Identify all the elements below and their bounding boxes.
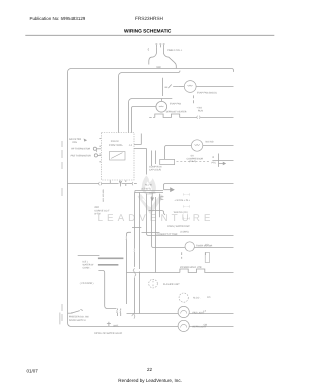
dispenser line 1 xyxy=(78,255,100,257)
connector mark left of plug xyxy=(147,48,150,50)
svg-text:(~~~~): (~~~~) xyxy=(183,193,190,196)
wire evap fan to right stub xyxy=(196,86,233,88)
flasher unit dashed circle xyxy=(149,279,158,288)
air filter arrow xyxy=(84,139,86,141)
dispenser wire corner down xyxy=(98,271,116,309)
svg-text:22: 22 xyxy=(147,367,153,372)
svg-text:CM: CM xyxy=(204,324,208,327)
svg-text:FRZ THERMISTOR: FRZ THERMISTOR xyxy=(71,154,92,157)
svg-text:(~~~~): (~~~~) xyxy=(183,217,190,220)
jog wire y=227.2 xyxy=(132,227,141,229)
wire thermistor FRZ stub xyxy=(98,154,101,156)
svg-text:DOOR SWITCH: DOOR SWITCH xyxy=(69,319,86,322)
timer below dashes xyxy=(182,252,206,258)
vertical wire x=140 xyxy=(139,192,141,313)
svg-text:EVAP FAN: EVAP FAN xyxy=(170,102,181,105)
wire y=183.6 segment a xyxy=(68,183,99,185)
wire bundle vertical x=155.4 xyxy=(155,151,157,273)
defrost timer cam bar xyxy=(135,191,163,193)
svg-text:COMP RUN: COMP RUN xyxy=(149,165,162,168)
control board box RH23 xyxy=(102,133,135,181)
dispenser bar 2 xyxy=(98,257,124,259)
svg-text:CONTROL: CONTROL xyxy=(109,144,123,147)
relay PTC assembly xyxy=(212,154,233,167)
svg-text:WAT..: WAT.. xyxy=(113,325,119,328)
watermark flame logo xyxy=(139,176,162,211)
freezer light line left xyxy=(127,313,179,315)
wire vertical x=162.7 xyxy=(162,78,164,96)
wire defrost lamp drop from y=98.6 xyxy=(161,99,163,102)
svg-text:RUN: RUN xyxy=(198,110,203,113)
wire y=183.6 segment d xyxy=(134,183,137,185)
wire line feed to control top pin 1 xyxy=(119,71,181,133)
svg-text:SH: SH xyxy=(191,155,195,158)
overload protector box xyxy=(160,159,175,164)
svg-text:S DRIVE CO.T: S DRIVE CO.T xyxy=(94,209,110,212)
motor compressor xyxy=(191,140,202,151)
lamp refr light on bottom line xyxy=(178,320,189,331)
svg-text:+ W DIS + DI +: + W DIS + DI + xyxy=(175,199,191,202)
connector at x=133 xyxy=(131,182,134,185)
alco valve dashed circle xyxy=(179,293,188,302)
relay box inside control xyxy=(110,152,126,161)
wire heater to right stub xyxy=(180,117,234,119)
svg-text:(~~~~): (~~~~) xyxy=(183,205,190,208)
wire control to bundle x=146.9 xyxy=(134,148,147,150)
svg-text:FAN: FAN xyxy=(73,141,78,144)
svg-text:DETAIL OF WATER VALVE: DETAIL OF WATER VALVE xyxy=(94,332,122,335)
tiny schematic labels xyxy=(69,49,217,335)
junction tick below freezer light line xyxy=(132,314,135,319)
wire bundle vertical x=146.9 to timer line xyxy=(147,149,234,236)
svg-text:ICEMKR MOLD HTR: ICEMKR MOLD HTR xyxy=(180,266,202,269)
svg-text:PTC: PTC xyxy=(212,161,217,164)
wire evap fan lower dashes xyxy=(193,95,195,103)
svg-text:CAP (15uF): CAP (15uF) xyxy=(149,169,161,172)
vertical wire x=134.5 with connector break xyxy=(134,192,136,313)
svg-text:FLASHER UNIT: FLASHER UNIT xyxy=(163,283,180,286)
wire thermistor RF stub xyxy=(97,148,101,150)
compressor feed wire with corner xyxy=(165,146,192,160)
wire y=183.6 segment c xyxy=(122,183,133,185)
motor M1 evap fan xyxy=(184,81,196,93)
svg-text:W.B DIS | DI |: W.B DIS | DI | xyxy=(174,211,188,214)
svg-text:Rendered by LeadVenture, Inc.: Rendered by LeadVenture, Inc. xyxy=(118,378,182,383)
svg-text:WATER W: WATER W xyxy=(83,263,95,266)
svg-text:ALL W: ALL W xyxy=(145,183,153,186)
svg-text:EVAP FAN (MOLD): EVAP FAN (MOLD) xyxy=(197,92,217,95)
freezer light line right xyxy=(189,313,233,315)
svg-text:Publication No: 5995483129: Publication No: 5995483129 xyxy=(30,16,86,21)
lamp freezer light xyxy=(178,306,189,317)
svg-text:+ NO: + NO xyxy=(197,107,203,110)
header rule xyxy=(25,34,274,36)
connector below RF thermistor xyxy=(95,150,98,152)
wire compressor to right stub xyxy=(203,145,234,147)
timer motor line right xyxy=(195,247,234,249)
svg-text:RH23: RH23 xyxy=(111,140,119,143)
vertical wire x=127 xyxy=(127,232,132,304)
svg-text:CONNECT CT TIME: CONNECT CT TIME xyxy=(157,233,179,236)
bracket below cam xyxy=(161,196,164,199)
svg-text:ICE |: ICE | xyxy=(83,260,88,263)
jog wire y=210.6 with hook xyxy=(149,211,165,215)
svg-text:P08B-2 COL.L: P08B-2 COL.L xyxy=(167,49,183,52)
jog wire y=232.4 xyxy=(142,232,160,234)
svg-text:(1.8 A): (1.8 A) xyxy=(189,160,196,163)
svg-text:NW: NW xyxy=(157,66,162,69)
wire bottom right segment xyxy=(189,326,233,328)
defrost heater element xyxy=(149,117,155,119)
svg-text:COMPRESSOR: COMPRESSOR xyxy=(187,157,204,160)
svg-text:CO: CO xyxy=(207,296,211,299)
svg-text:FREEZER DO. SW: FREEZER DO. SW xyxy=(69,316,90,319)
svg-text:LEADVENTURE: LEADVENTURE xyxy=(98,213,215,224)
svg-text:DEFROST HEATER: DEFROST HEATER xyxy=(166,111,187,114)
svg-text:RF THERMISTOR: RF THERMISTOR xyxy=(71,148,90,151)
svg-text:W TW: W TW xyxy=(94,212,101,215)
control pin stubs left xyxy=(99,138,101,161)
junction arrow at x=120 xyxy=(119,181,121,186)
control pin stubs bottom xyxy=(110,180,126,186)
svg-text:01/07: 01/07 xyxy=(27,369,39,374)
lamp defrost thermostat circle xyxy=(156,101,167,112)
svg-text:CONN | WATER DISP: CONN | WATER DISP xyxy=(167,225,190,228)
motor timer xyxy=(185,242,194,251)
arrow to cam xyxy=(164,189,171,191)
connector pair verticals xyxy=(117,309,120,317)
svg-text:CONN .: CONN . xyxy=(83,266,91,269)
thermistor FRZ symbol xyxy=(94,154,97,157)
door switch freezer xyxy=(68,312,71,314)
connector on heater wire xyxy=(197,116,200,119)
dispenser bar 3 xyxy=(98,264,119,266)
svg-text:(CONN): (CONN) xyxy=(180,230,189,233)
svg-text:AIR FILTER: AIR FILTER xyxy=(69,138,82,141)
wire switch to evap fan motor xyxy=(178,86,184,88)
svg-text:FRS23HRSH: FRS23HRSH xyxy=(135,16,163,21)
wire bundle vertical x=159.7 short xyxy=(159,194,161,218)
wire y=98.6 to control top pin 2 xyxy=(129,99,173,133)
plug power cord prongs xyxy=(156,43,157,44)
wire y=183.6 segment b xyxy=(102,183,119,185)
ice maker mold heater line with element xyxy=(127,272,180,274)
wire y=183.3 right segment xyxy=(164,184,234,190)
dashed cabinet line x=62 xyxy=(61,141,63,321)
svg-text:NO IND: NO IND xyxy=(206,140,214,143)
wire bundle vertical x=151 to timer motor line xyxy=(152,151,185,248)
wire main loop: left bus, top line, bottom line xyxy=(68,69,234,327)
wire defrost lamp left to control top pin 3 xyxy=(132,107,156,133)
ice maker small box xyxy=(205,253,209,263)
svg-text:OFF: OFF xyxy=(94,206,99,209)
arrow down at x=152 under cam xyxy=(149,193,156,199)
connector on wire y=183.6 xyxy=(99,182,102,185)
thermistor RF symbol xyxy=(93,147,96,150)
svg-text:( CD DOOR ): ( CD DOOR ) xyxy=(80,282,94,285)
svg-text:AUX LIG HUL: AUX LIG HUL xyxy=(102,188,105,202)
terminal on bottom line xyxy=(107,322,111,326)
switch S1 evap fan xyxy=(165,85,179,89)
svg-text:WIRING SCHEMATIC: WIRING SCHEMATIC xyxy=(124,29,172,35)
svg-text:ALCO .: ALCO . xyxy=(193,297,201,300)
control pin wires right short xyxy=(134,134,141,145)
svg-text:(CT W-T): (CT W-T) xyxy=(141,188,151,191)
plug body xyxy=(149,47,157,64)
dashed link overload to relay xyxy=(177,161,211,163)
dashed stub bottom left xyxy=(59,313,61,325)
svg-text:CO .: CO . xyxy=(205,244,210,247)
